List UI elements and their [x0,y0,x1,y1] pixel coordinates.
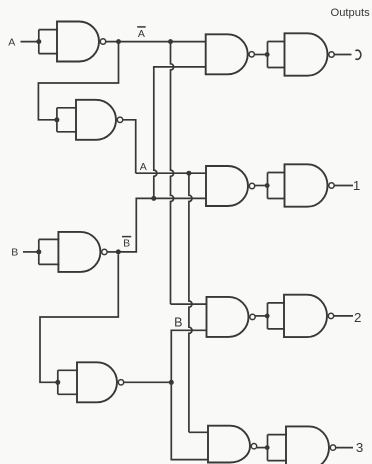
wire B from G4 [124,381,172,383]
NAND inverter I0 (output 0) [285,33,328,75]
net label A-bar [137,26,146,28]
wire B-bar output [107,251,118,253]
svg-text:Outputs: Outputs [331,7,371,19]
wire A-bar output [106,41,206,43]
junction B-bar branch [151,196,156,201]
junction B-bar node [116,249,121,254]
svg-text:A: A [140,161,147,173]
wire output 0 [334,54,351,56]
tied-input bracket I0 [268,42,286,68]
NAND inverter G2 (A-bar to A) [76,100,116,140]
junction A branch [186,171,191,176]
wire D2 to inverter [255,315,265,317]
wire output 1 [334,185,353,187]
tied-input bracket I3 [268,435,288,461]
tied-input bracket I1 [268,173,286,199]
junction G2 input [54,117,59,122]
wire output 2 [334,315,353,317]
svg-text:A: A [8,37,15,49]
wire B-bar to gate D1 [154,197,206,199]
junction G4 input [55,380,60,385]
wire D0 to inverter [254,54,265,56]
NAND inverter I3 (output 3) [286,426,329,464]
NAND inverter G4 (B-bar to B) [77,362,117,402]
junction inverter I3 input [265,445,270,450]
NAND gate D1 (decode 1) [206,166,248,206]
wire B vertical to D3 [171,385,208,460]
wire A vertical bus [189,175,192,432]
tied-input bracket G1 [39,30,58,54]
svg-text:B: B [174,315,182,329]
junction inverter I2 input [265,314,270,319]
tied-input bracket G4 [58,370,78,394]
wire D1 to inverter [255,185,265,187]
junction inverter I1 input [265,183,270,188]
wire B-bar riser [118,198,151,252]
svg-text:B: B [11,247,18,259]
NAND gate D3 (decode 3) [208,426,250,463]
NAND gate D2 (decode 2) [207,297,249,337]
tied-input bracket G3 [39,239,60,264]
tied-input bracket I2 [268,303,286,329]
wire A input [21,41,39,43]
svg-text:1: 1 [353,178,360,193]
NAND inverter G1 (A to A-bar) [57,22,99,62]
wire B riser to D2 [171,330,206,380]
wire B input [23,251,39,253]
net label B-bar [122,236,131,238]
NAND inverter I2 (output 2) [284,295,327,337]
svg-text:B: B [123,238,130,250]
NAND inverter I1 (output 1) [285,164,328,206]
junction A-bar node [116,39,121,44]
junction B node [169,380,174,385]
svg-text:3: 3 [356,440,363,455]
wire B-bar to gate D0 [154,67,157,196]
wire output 3 [336,447,353,449]
wire A-bar to G2 [38,44,118,120]
svg-text:2: 2 [354,310,361,325]
svg-text:A: A [138,28,145,40]
wire A from G2 [123,120,136,173]
junction B input [36,249,41,254]
NAND inverter G3 (B to B-bar) [58,232,100,272]
wire B-bar to G4 [40,254,118,382]
junction A input [36,39,41,44]
junction A-bar tap [168,39,173,44]
NAND gate D0 (decode 0) [206,34,248,74]
junction inverter I0 input [265,52,270,57]
tied-input bracket G2 [57,108,77,132]
wire A horizontal to D1 [136,172,206,174]
wire D3 to inverter [257,447,265,449]
wire A-bar vertical bus [171,44,174,304]
output label 0 [355,50,360,59]
